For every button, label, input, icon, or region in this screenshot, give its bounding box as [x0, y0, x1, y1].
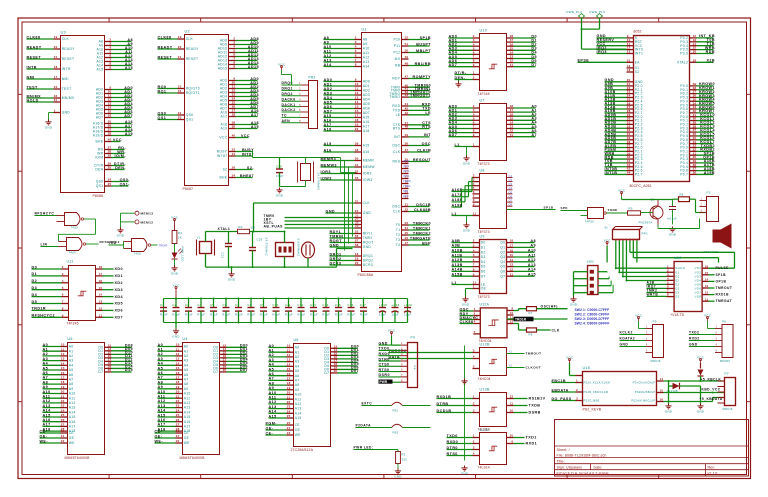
svg-text:52: 52	[405, 36, 409, 40]
svg-text:AD7: AD7	[449, 63, 458, 67]
svg-text:PGM-: PGM-	[266, 421, 278, 425]
svg-text:A14: A14	[269, 410, 278, 414]
svg-text:AD5: AD5	[363, 102, 370, 106]
svg-text:R3: R3	[178, 231, 182, 235]
svg-text:A9: A9	[324, 40, 330, 44]
svg-text:C7: C7	[235, 303, 239, 307]
wire gate out	[607, 212, 628, 214]
svg-text:T3: T3	[396, 238, 401, 242]
svg-text:18: 18	[693, 58, 697, 62]
svg-text:18: 18	[355, 118, 359, 122]
svg-text:CE: CE	[295, 423, 301, 427]
svg-text:19: 19	[178, 35, 182, 39]
svg-text:A5: A5	[269, 367, 275, 371]
svg-text:QS1: QS1	[158, 116, 167, 120]
svg-text:7: 7	[473, 263, 475, 267]
svg-text:23: 23	[405, 221, 409, 225]
svg-text:TXD2: TXD2	[689, 331, 699, 335]
svg-text:AD7: AD7	[363, 111, 370, 115]
svg-text:RP1: RP1	[642, 232, 649, 236]
svg-text:RDB: RDB	[706, 50, 715, 54]
ground U3	[48, 120, 50, 122]
svg-text:A1: A1	[184, 349, 189, 353]
svg-text:XD5: XD5	[115, 302, 124, 306]
svg-text:U6: U6	[294, 338, 299, 342]
svg-text:27: 27	[405, 241, 409, 245]
svg-text:INT2: INT2	[403, 169, 410, 173]
svg-text:21: 21	[54, 55, 58, 59]
svg-text:BSP: BSP	[422, 241, 431, 245]
svg-text:A5: A5	[43, 366, 49, 370]
svg-text:TMRGATE: TMRGATE	[410, 236, 431, 240]
svg-text:17: 17	[176, 376, 180, 380]
jumper FB1	[362, 402, 431, 413]
svg-text:DCD1B: DCD1B	[437, 409, 452, 413]
svg-text:Q4: Q4	[509, 186, 513, 190]
gate U14B 74F00	[41, 238, 120, 255]
svg-text:GND: GND	[326, 209, 336, 213]
svg-text:A15: A15	[43, 413, 51, 417]
svg-text:READY: READY	[158, 45, 173, 49]
svg-text:A1: A1	[43, 348, 49, 352]
svg-text:+C20: +C20	[404, 303, 412, 307]
clock generator group	[197, 203, 362, 282]
svg-text:U12A: U12A	[480, 303, 490, 307]
U3 right control RD WR IO	[105, 149, 112, 151]
svg-text:3: 3	[473, 349, 475, 353]
svg-text:PWR_PL6: PWR_PL6	[590, 10, 606, 14]
svg-text:15: 15	[61, 366, 65, 370]
svg-text:C6: C6	[222, 303, 226, 307]
wire vertical bus U12-U13	[464, 346, 466, 461]
svg-text:17: 17	[61, 376, 65, 380]
wire KBCLK row	[664, 380, 725, 382]
svg-text:TMRI: TMRI	[363, 236, 372, 240]
svg-text:A2: A2	[43, 352, 49, 356]
svg-text:A13: A13	[158, 404, 166, 408]
wire speaker vcc rail	[622, 199, 673, 201]
svg-text:16: 16	[705, 264, 709, 268]
svg-text:A15: A15	[324, 114, 332, 118]
svg-text:QS1: QS1	[186, 118, 194, 122]
svg-text:VCC: VCC	[113, 138, 122, 142]
svg-text:A10: A10	[363, 47, 370, 51]
svg-text:Q8: Q8	[509, 203, 513, 207]
svg-text:U2: U2	[185, 30, 190, 34]
resistor R8 CLK	[514, 324, 560, 337]
svg-text:CLKOUT: CLKOUT	[526, 366, 542, 370]
svg-text:7400: 7400	[134, 252, 142, 256]
svg-text:5: 5	[62, 286, 64, 290]
svg-text:A18: A18	[363, 129, 370, 133]
svg-text:XD3: XD3	[115, 288, 124, 292]
svg-text:U18: U18	[583, 366, 591, 370]
svg-text:PS2C_MSE: PS2C_MSE	[584, 399, 600, 403]
svg-text:36: 36	[405, 142, 409, 146]
svg-text:A7: A7	[269, 377, 275, 381]
wire clock bottom bus	[206, 266, 337, 268]
P4 inverted label	[379, 380, 393, 384]
svg-text:A9: A9	[158, 385, 164, 389]
U1 right pins	[389, 36, 431, 248]
svg-text:13: 13	[627, 50, 631, 54]
IC U12A 74HC04	[460, 303, 514, 344]
svg-text:74F245: 74F245	[478, 92, 490, 96]
svg-text:A19B: A19B	[704, 171, 715, 175]
svg-text:Q7: Q7	[500, 274, 505, 278]
svg-text:A12: A12	[324, 54, 332, 58]
svg-text:QS1: QS1	[96, 184, 104, 188]
svg-text:D2: D2	[481, 250, 486, 254]
resistor array RP1	[605, 226, 649, 240]
svg-text:A17: A17	[43, 423, 51, 427]
svg-text:12: 12	[176, 352, 180, 356]
svg-text:10: 10	[287, 344, 291, 348]
svg-text:16: 16	[61, 371, 65, 375]
svg-text:TMRCK0: TMRCK0	[413, 221, 431, 225]
svg-text:A8: A8	[530, 239, 536, 243]
svg-text:D07: D07	[240, 368, 248, 372]
svg-text:WRTB: WRTB	[647, 293, 659, 297]
svg-text:D1: D1	[32, 272, 38, 276]
svg-text:GND: GND	[363, 245, 372, 249]
svg-text:15: 15	[287, 367, 291, 371]
ground SW2	[573, 297, 575, 299]
svg-text:MBLPT: MBLPT	[416, 49, 431, 53]
svg-text:A15: A15	[363, 116, 370, 120]
svg-text:18: 18	[627, 68, 631, 72]
svg-text:34: 34	[232, 174, 236, 178]
svg-text:TMRO: TMRO	[389, 95, 400, 99]
svg-text:74F00: 74F00	[585, 220, 595, 224]
U3 right QS0 QS1	[105, 181, 112, 183]
svg-text:A11: A11	[184, 396, 191, 400]
svg-text:18: 18	[355, 252, 359, 256]
svg-text:OSC(HF): OSC(HF)	[541, 305, 558, 309]
IC U12B 74HC04	[389, 343, 542, 382]
svg-text:C5: C5	[210, 303, 214, 307]
oscillator can X2	[302, 242, 315, 258]
U8 right stub pins	[507, 177, 513, 179]
svg-text:SW2.4: D8000-DFFFF: SW2.4: D8000-DFFFF	[575, 322, 610, 326]
svg-text:R1uF: R1uF	[322, 313, 330, 317]
svg-text:P10: P10	[393, 38, 400, 42]
svg-text:29: 29	[355, 224, 359, 228]
svg-text:2: 2	[473, 76, 475, 80]
U3 right A16-A19	[105, 123, 112, 125]
IC U8 74F373	[452, 169, 556, 235]
svg-text:P80C88A: P80C88A	[358, 273, 374, 277]
svg-text:74F373: 74F373	[478, 230, 490, 234]
svg-text:Q2: Q2	[509, 178, 513, 182]
svg-text:A15: A15	[158, 413, 166, 417]
svg-text:RQ/GT1: RQ/GT1	[186, 91, 200, 95]
svg-text:DEN: DEN	[95, 168, 103, 172]
svg-text:9: 9	[473, 202, 475, 206]
IC U1 80C88	[264, 28, 402, 278]
svg-text:19: 19	[287, 386, 291, 390]
svg-text:Title:: Title:	[557, 459, 565, 463]
svg-text:RQ/GT0: RQ/GT0	[186, 87, 200, 91]
svg-text:2: 2	[355, 36, 357, 40]
svg-text:A5: A5	[158, 366, 164, 370]
jumper FB2	[356, 424, 431, 435]
svg-text:GND: GND	[330, 243, 340, 247]
svg-text:XTAL1: XTAL1	[218, 227, 231, 231]
svg-text:MN/MX: MN/MX	[62, 96, 75, 100]
svg-text:13: 13	[705, 284, 709, 288]
svg-text:TXD0: TXD0	[447, 434, 458, 438]
svg-text:A3: A3	[69, 359, 74, 363]
inverted label XTAL2	[507, 317, 568, 322]
svg-text:TC: TC	[282, 114, 288, 118]
svg-text:A0: A0	[295, 346, 300, 350]
svg-text:16: 16	[660, 398, 664, 402]
svg-text:11: 11	[355, 87, 359, 91]
svg-text:1: 1	[54, 109, 56, 113]
wire RP1 to long rails	[630, 241, 735, 269]
svg-text:R1uF: R1uF	[285, 313, 293, 317]
resistor R4	[238, 229, 250, 233]
svg-text:1M: 1M	[251, 226, 256, 230]
svg-text:A16: A16	[363, 150, 370, 154]
svg-text:AD15: AD15	[218, 67, 228, 71]
svg-text:KiCad E.D.A. kicad 4.0.2-stab: KiCad E.D.A. kicad 4.0.2-stable	[557, 472, 609, 476]
svg-text:A9: A9	[69, 387, 74, 391]
svg-text:C3: C3	[185, 303, 189, 307]
svg-text:MDIN6: MDIN6	[720, 359, 730, 363]
svg-text:55: 55	[355, 230, 359, 234]
svg-text:16: 16	[99, 279, 103, 283]
svg-text:MDIN6: MDIN6	[651, 359, 661, 363]
svg-text:KCLK2: KCLK2	[620, 331, 633, 335]
svg-text:9.8304MHZ: 9.8304MHZ	[297, 239, 301, 257]
svg-text:A17: A17	[324, 123, 332, 127]
U1 left DRQ pins	[355, 255, 362, 257]
svg-text:39: 39	[232, 125, 236, 129]
svg-text:TXDB: TXDB	[529, 404, 541, 408]
svg-text:TXD: TXD	[422, 107, 431, 111]
svg-text:Sheet: /: Sheet: /	[557, 448, 570, 452]
svg-text:AD1: AD1	[363, 84, 370, 88]
svg-text:19: 19	[54, 35, 58, 39]
svg-text:DRQ2: DRQ2	[330, 257, 342, 261]
resistor R5	[628, 211, 641, 215]
svg-text:S2-: S2-	[247, 166, 254, 170]
svg-text:A10B: A10B	[452, 249, 463, 253]
connector P2	[658, 191, 719, 229]
svg-text:RXD2: RXD2	[689, 337, 700, 341]
ground U10	[458, 80, 460, 82]
svg-text:D07: D07	[351, 369, 359, 373]
svg-text:D2: D2	[32, 279, 38, 283]
svg-text:18: 18	[176, 380, 180, 384]
svg-text:A14: A14	[363, 65, 370, 69]
svg-text:GND: GND	[461, 472, 469, 476]
svg-text:INT87: INT87	[217, 154, 228, 158]
ground mid gates	[464, 379, 466, 381]
wire crystal top	[205, 232, 207, 242]
svg-text:AD3: AD3	[324, 91, 333, 95]
svg-text:20: 20	[355, 261, 359, 265]
svg-text:A8: A8	[269, 381, 275, 385]
svg-text:RB: RB	[395, 64, 401, 68]
svg-text:RESOUT: RESOUT	[413, 158, 431, 162]
svg-text:OE: OE	[69, 436, 75, 440]
svg-text:CE: CE	[184, 431, 190, 435]
svg-text:R1uF: R1uF	[235, 313, 243, 317]
svg-text:A5: A5	[295, 369, 300, 373]
svg-text:GND: GND	[462, 303, 470, 307]
svg-text:OSC: OSC	[392, 144, 400, 148]
svg-text:NMI: NMI	[27, 75, 35, 79]
svg-text:GND: GND	[570, 303, 578, 307]
svg-text:CLK/M: CLK/M	[417, 148, 431, 152]
8052 left top pins	[597, 34, 644, 56]
svg-text:25: 25	[108, 166, 112, 170]
svg-text:TRD1R: TRD1R	[515, 318, 527, 322]
svg-text:RTS0: RTS0	[379, 368, 390, 372]
svg-text:P6: P6	[722, 320, 726, 324]
U2 right VCC pin	[229, 137, 236, 139]
svg-text:OP1B: OP1B	[716, 279, 727, 283]
svg-text:1: 1	[474, 307, 476, 311]
svg-text:P0.7: P0.7	[680, 173, 688, 177]
svg-text:A10: A10	[69, 392, 76, 396]
svg-text:9: 9	[233, 65, 235, 69]
svg-text:A0: A0	[184, 345, 189, 349]
svg-text:U8: U8	[480, 169, 485, 173]
svg-text:QS0: QS0	[96, 180, 104, 184]
svg-text:P5: P5	[653, 320, 657, 324]
svg-text:RS1B1V: RS1B1V	[529, 397, 546, 401]
svg-text:AD2: AD2	[324, 87, 333, 91]
svg-text:I/O8: I/O8	[695, 295, 702, 299]
svg-text:TRD: TRD	[109, 241, 117, 245]
svg-text:DT/R-: DT/R-	[455, 71, 467, 75]
svg-text:AD2: AD2	[363, 89, 370, 93]
svg-text:74F373: 74F373	[478, 162, 490, 166]
svg-text:R1uF: R1uF	[222, 313, 230, 317]
ground PWR LED	[174, 266, 176, 268]
svg-text:BUSPT: BUSPT	[416, 42, 431, 46]
svg-text:A6: A6	[69, 373, 74, 377]
svg-text:1: 1	[473, 285, 475, 289]
IC U11 74F245	[32, 260, 124, 326]
svg-text:D7: D7	[481, 274, 486, 278]
svg-text:Q7: Q7	[509, 199, 513, 203]
svg-text:WE: WE	[184, 441, 190, 445]
svg-text:RQ0: RQ0	[158, 85, 167, 89]
svg-text:AD7: AD7	[449, 133, 458, 137]
svg-text:11: 11	[473, 212, 477, 216]
svg-text:A11: A11	[528, 253, 536, 257]
svg-text:PS2A_KCLK/CLKM: PS2A_KCLK/CLKM	[584, 381, 611, 385]
svg-text:24: 24	[108, 178, 112, 182]
frame row ticks	[18, 93, 22, 95]
svg-text:DCR3: DCR3	[330, 261, 342, 265]
svg-text:4: 4	[473, 355, 475, 359]
crystal Y1	[200, 242, 212, 254]
svg-text:13: 13	[61, 357, 65, 361]
svg-text:37: 37	[405, 148, 409, 152]
svg-text:GND: GND	[463, 162, 471, 166]
svg-text:QS0: QS0	[186, 113, 194, 117]
svg-text:17: 17	[355, 114, 359, 118]
svg-text:OSC: OSC	[392, 205, 400, 209]
svg-text:DRQ2: DRQ2	[363, 259, 374, 263]
svg-text:READY: READY	[27, 45, 42, 49]
svg-text:1K: 1K	[178, 236, 182, 240]
svg-text:22: 22	[61, 439, 65, 443]
svg-text:C17: C17	[360, 303, 366, 307]
svg-text:FB2: FB2	[393, 431, 399, 435]
svg-text:22: 22	[61, 399, 65, 403]
U3 right AD bus AD0-AD7	[105, 89, 112, 91]
svg-text:A4: A4	[269, 363, 275, 367]
svg-text:3: 3	[62, 272, 64, 276]
svg-text:A16: A16	[324, 148, 332, 152]
svg-text:17: 17	[99, 272, 103, 276]
svg-text:D4: D4	[481, 260, 486, 264]
svg-text:32: 32	[355, 170, 359, 174]
svg-text:GND: GND	[228, 278, 236, 282]
svg-text:SP1B: SP1B	[420, 36, 431, 40]
svg-text:A17: A17	[363, 125, 370, 129]
svg-text:20: 20	[176, 390, 180, 394]
svg-text:TMRIN: TMRIN	[330, 234, 344, 238]
svg-text:19: 19	[61, 385, 65, 389]
ground U13C	[464, 466, 466, 468]
svg-text:X2B: X2B	[706, 59, 715, 63]
svg-text:Y1: Y1	[509, 349, 513, 353]
svg-text:EBDATA: EBDATA	[552, 388, 569, 392]
svg-text:LIR: LIR	[41, 243, 48, 247]
svg-text:A17: A17	[251, 113, 259, 117]
svg-text:A14: A14	[528, 268, 537, 272]
svg-text:RESET: RESET	[158, 55, 173, 59]
svg-text:AEN: AEN	[282, 119, 291, 123]
svg-text:PS2_KEYB: PS2_KEYB	[583, 408, 602, 412]
svg-text:AD6: AD6	[324, 105, 333, 109]
U9 OE pin	[473, 288, 480, 290]
svg-text:IOR3: IOR3	[321, 170, 331, 174]
svg-text:A14: A14	[69, 410, 76, 414]
svg-text:TXD: TXD	[393, 109, 401, 113]
svg-text:TMRCK2: TMRCK2	[413, 231, 431, 235]
svg-text:MDIN6: MDIN6	[723, 407, 733, 411]
U8 ALE pin	[473, 215, 480, 217]
svg-text:10: 10	[510, 434, 514, 438]
svg-text:A15: A15	[269, 414, 277, 418]
wire flag1 down	[581, 19, 583, 50]
U1 right stub pins with blue names	[402, 163, 409, 165]
svg-text:C2: C2	[172, 303, 176, 307]
svg-text:26: 26	[405, 236, 409, 240]
svg-text:A12B: A12B	[452, 258, 463, 262]
svg-text:AD7: AD7	[96, 116, 103, 120]
svg-text:38: 38	[355, 148, 359, 152]
svg-text:GND: GND	[62, 111, 71, 115]
svg-text:R1uF: R1uF	[160, 313, 168, 317]
svg-text:30: 30	[355, 157, 359, 161]
svg-text:11: 11	[61, 347, 65, 351]
svg-text:22: 22	[287, 431, 291, 435]
svg-text:MEM12: MEM12	[141, 220, 154, 224]
P4 GND wire	[379, 344, 401, 346]
wire CLK vertical	[253, 203, 255, 232]
svg-text:A15B: A15B	[452, 273, 463, 277]
